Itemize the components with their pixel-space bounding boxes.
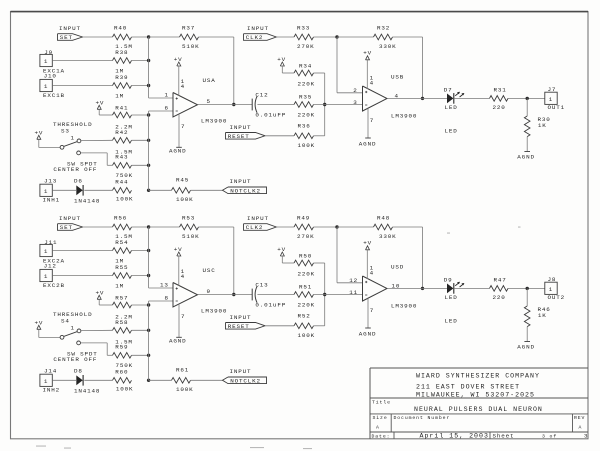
wire (149, 226, 180, 228)
svg-text:R55: R55 (115, 264, 128, 271)
resistor R51 (294, 284, 315, 309)
capacitor C13 (252, 282, 286, 309)
svg-text:7: 7 (370, 117, 374, 124)
resistor R57 (113, 295, 133, 321)
junction (147, 35, 150, 38)
wire (508, 287, 545, 289)
wire (52, 275, 112, 277)
junction (335, 225, 338, 228)
wire (81, 139, 113, 141)
svg-text:D6: D6 (74, 178, 83, 185)
svg-text:R32: R32 (377, 25, 390, 32)
wire (265, 135, 294, 137)
svg-text:R37: R37 (182, 25, 195, 32)
junction (147, 225, 150, 228)
wire (132, 226, 149, 228)
node SET input label 1 (59, 25, 81, 32)
wire (39, 139, 60, 147)
wire (99, 109, 112, 115)
wire pin 14 (179, 256, 185, 286)
wire (282, 256, 294, 263)
resistor R37 (180, 25, 200, 51)
svg-text:NOTCLK2: NOTCLK2 (230, 188, 261, 195)
svg-text:1: 1 (44, 248, 48, 255)
svg-text:1: 1 (44, 188, 48, 195)
svg-text:MILWAUKEE, WI 53207-2025: MILWAUKEE, WI 53207-2025 (416, 392, 535, 399)
svg-text:J13: J13 (44, 178, 57, 185)
svg-text:R31: R31 (494, 86, 507, 93)
resistor R45 (172, 176, 194, 203)
flag CLK2 (244, 34, 277, 42)
svg-text:510K: 510K (182, 43, 200, 50)
resistor R42 (113, 129, 133, 155)
resistor R31 (490, 86, 509, 111)
wire (337, 226, 374, 228)
resistor R56 (113, 215, 133, 241)
resistor R46 (524, 306, 550, 327)
svg-text:1M: 1M (115, 283, 124, 290)
svg-text:Sheet: Sheet (493, 433, 515, 440)
svg-text:INPUT: INPUT (230, 314, 252, 321)
svg-text:USD: USD (391, 263, 404, 270)
resistor R36 (294, 123, 315, 149)
LED D9 (444, 276, 465, 301)
svg-text:R45: R45 (176, 176, 189, 183)
node CLK2 input label (247, 25, 269, 32)
connector J11 (40, 239, 65, 265)
switch mode label (53, 350, 97, 363)
power +V (96, 99, 105, 109)
wire (454, 287, 490, 289)
wire (276, 36, 294, 38)
svg-text:D7: D7 (444, 86, 453, 93)
svg-text:Document Number: Document Number (394, 415, 451, 421)
LED label (445, 127, 458, 134)
op-amp USA (165, 77, 228, 124)
ground AGND (517, 152, 535, 161)
resistor R38 (113, 49, 132, 75)
wire (314, 226, 338, 228)
wire (81, 153, 113, 165)
junction (421, 287, 424, 290)
resistor R43 (113, 154, 134, 180)
junction (526, 287, 529, 290)
svg-text:C13: C13 (255, 282, 268, 289)
junction (232, 293, 235, 296)
svg-text:5: 5 (207, 98, 211, 105)
connector J13 (40, 178, 60, 204)
resistor R61 (172, 366, 194, 393)
svg-text:100K: 100K (298, 332, 316, 339)
svg-text:R43: R43 (115, 154, 128, 161)
svg-text:R41: R41 (115, 105, 128, 112)
power +V (35, 319, 44, 329)
speckle marks (36, 227, 521, 450)
connector J9 (40, 49, 65, 75)
junction (147, 139, 150, 142)
svg-text:+V: +V (277, 56, 286, 63)
svg-text:INPUT: INPUT (230, 124, 252, 131)
svg-text:LED: LED (445, 127, 458, 134)
svg-text:INPUT: INPUT (59, 215, 81, 222)
svg-text:100K: 100K (116, 386, 134, 393)
junction (323, 293, 326, 296)
wire (454, 97, 490, 99)
svg-text:220K: 220K (298, 111, 316, 118)
svg-text:R36: R36 (298, 123, 311, 130)
svg-text:R54: R54 (115, 239, 128, 246)
wire (314, 135, 325, 137)
junction (526, 97, 529, 100)
resistor R47 (490, 276, 509, 301)
junction (147, 113, 150, 116)
svg-text:211 EAST DOVER STREET: 211 EAST DOVER STREET (416, 384, 520, 391)
wire (132, 85, 149, 87)
ground AGND (359, 138, 377, 147)
resistor R33 (294, 25, 315, 51)
svg-text:INH1: INH1 (43, 197, 61, 204)
op-amp USB (353, 73, 417, 119)
svg-text:R61: R61 (176, 366, 189, 373)
switch S3 labels (53, 121, 92, 134)
wire (526, 288, 528, 306)
svg-text:8: 8 (165, 294, 169, 301)
junction (147, 274, 150, 277)
svg-text:+V: +V (174, 246, 183, 253)
svg-text:7: 7 (181, 313, 185, 320)
wire (526, 98, 528, 116)
wire (276, 226, 294, 228)
svg-text:USB: USB (391, 73, 404, 80)
node RESET input label (230, 124, 252, 131)
node CLK2 input label (247, 215, 269, 222)
svg-text:AGND: AGND (517, 343, 535, 350)
wire (314, 263, 325, 326)
svg-text:R33: R33 (297, 25, 310, 32)
svg-text:USC: USC (203, 267, 216, 274)
svg-text:S3: S3 (61, 127, 70, 134)
wire (99, 299, 112, 305)
flag RESET (226, 323, 266, 331)
junction (147, 303, 150, 306)
diode D6 (74, 178, 100, 205)
wire (199, 227, 234, 295)
power +V (174, 246, 183, 256)
resistor R32 (374, 25, 397, 51)
wire (132, 275, 149, 277)
svg-text:R52: R52 (298, 313, 311, 320)
svg-text:220K: 220K (298, 301, 316, 308)
resistor R30 (524, 116, 550, 137)
wire (387, 287, 447, 289)
wire (337, 36, 374, 38)
svg-text:LED: LED (445, 294, 458, 301)
resistor R34 (294, 63, 315, 88)
wire (314, 325, 325, 327)
wire (337, 227, 363, 283)
wire (39, 329, 60, 337)
svg-text:CENTER OFF: CENTER OFF (53, 356, 97, 363)
wire (149, 189, 172, 191)
wire (393, 227, 423, 288)
svg-text:1: 1 (549, 96, 553, 103)
svg-text:AGND: AGND (169, 148, 187, 155)
svg-text:7: 7 (181, 123, 185, 130)
flag SET2 (58, 224, 83, 232)
wire (314, 104, 363, 106)
wire pin 14 (179, 66, 185, 96)
svg-text:LM3900: LM3900 (391, 302, 417, 309)
svg-text:330K: 330K (379, 43, 397, 50)
svg-text:6: 6 (165, 104, 169, 111)
svg-text:D8: D8 (74, 368, 83, 375)
svg-text:EXC2B: EXC2B (43, 282, 65, 289)
svg-text:100K: 100K (176, 386, 194, 393)
svg-text:270K: 270K (297, 233, 315, 240)
power +V (277, 246, 286, 256)
svg-text:510K: 510K (182, 233, 200, 240)
wire (191, 189, 223, 191)
wire plus-input bus (149, 37, 173, 98)
svg-text:A: A (376, 424, 380, 430)
switch S4 labels (53, 311, 92, 324)
svg-text:R53: R53 (182, 215, 195, 222)
junction (147, 249, 150, 252)
node NOTCLK2 input label (230, 178, 252, 185)
svg-text:0.01uFP: 0.01uFP (255, 112, 286, 119)
svg-text:3 of: 3 of (542, 434, 557, 440)
svg-text:4: 4 (181, 273, 185, 280)
svg-text:R57: R57 (115, 295, 128, 302)
resistor R55 (113, 264, 132, 290)
svg-text:+V: +V (96, 289, 105, 296)
resistor R39 (113, 74, 132, 100)
svg-text:A: A (579, 424, 583, 430)
resistor R52 (294, 313, 315, 339)
svg-text:1N4148: 1N4148 (74, 198, 100, 205)
junction (335, 35, 338, 38)
svg-text:13: 13 (160, 281, 169, 288)
wire minus-input bus (149, 111, 173, 190)
svg-text:220K: 220K (298, 271, 316, 278)
svg-text:INH2: INH2 (43, 387, 61, 394)
svg-text:J9: J9 (44, 49, 53, 56)
svg-text:LM3900: LM3900 (201, 117, 227, 124)
junction (147, 59, 150, 62)
title block size/doc/rev (373, 415, 586, 430)
resistor R44 (113, 179, 134, 203)
svg-text:J11: J11 (44, 239, 57, 246)
svg-text:R39: R39 (115, 74, 128, 81)
capacitor C12 (252, 92, 286, 119)
svg-text:4: 4 (370, 79, 374, 86)
svg-text:LM3900: LM3900 (391, 112, 417, 119)
wire (199, 37, 234, 105)
wire (132, 354, 149, 356)
svg-text:R35: R35 (299, 94, 312, 101)
svg-text:LED: LED (445, 317, 458, 324)
svg-text:J12: J12 (44, 263, 57, 270)
svg-text:Title: Title (372, 399, 391, 405)
flag NOTCLK2 (223, 377, 267, 385)
svg-text:R42: R42 (115, 129, 128, 136)
svg-text:AGND: AGND (359, 140, 377, 147)
node RESET input label (230, 314, 252, 321)
flag RESET (226, 133, 266, 141)
svg-text:R58: R58 (115, 319, 128, 326)
wire (149, 379, 172, 381)
svg-text:RESET: RESET (228, 133, 250, 140)
wire (314, 73, 325, 136)
junction (147, 329, 150, 332)
connector J10 (40, 73, 65, 99)
svg-text:D9: D9 (444, 276, 453, 283)
svg-text:1M: 1M (115, 93, 124, 100)
wire minus-input bus (149, 301, 173, 380)
svg-text:4: 4 (181, 83, 185, 90)
svg-text:330K: 330K (379, 233, 397, 240)
wire (132, 139, 149, 141)
wire (387, 97, 447, 99)
wire (52, 379, 76, 381)
svg-text:J14: J14 (44, 368, 57, 375)
svg-text:R60: R60 (115, 369, 128, 376)
svg-text:R40: R40 (114, 25, 127, 32)
wire (84, 379, 112, 381)
wire (282, 66, 294, 73)
svg-text:220: 220 (493, 104, 506, 111)
svg-text:S4: S4 (61, 317, 70, 324)
node NOTCLK2 input label (230, 368, 252, 375)
svg-text:CLK2: CLK2 (246, 34, 264, 41)
resistor R35 (294, 94, 315, 119)
svg-text:LM3900: LM3900 (201, 307, 227, 314)
svg-text:CENTER OFF: CENTER OFF (53, 166, 97, 173)
ground AGND (169, 147, 187, 154)
svg-text:1K: 1K (538, 312, 547, 319)
svg-text:100K: 100K (116, 196, 134, 203)
svg-text:100K: 100K (176, 196, 194, 203)
wire (52, 60, 112, 62)
resistor R48 (374, 215, 397, 241)
svg-text:1: 1 (44, 378, 48, 385)
ground AGND (517, 342, 535, 351)
svg-text:REV: REV (574, 415, 585, 421)
svg-text:J10: J10 (44, 73, 57, 80)
svg-text:220: 220 (493, 294, 506, 301)
svg-text:CLK2: CLK2 (246, 224, 264, 231)
wire (508, 97, 545, 99)
flag CLK2 (244, 224, 277, 232)
op-amp USD (349, 263, 417, 309)
power +V (363, 240, 372, 250)
wire (314, 36, 338, 38)
svg-text:1: 1 (44, 273, 48, 280)
svg-text:EXC1B: EXC1B (43, 92, 65, 99)
wire (52, 250, 112, 252)
svg-text:+V: +V (174, 56, 183, 63)
svg-text:R50: R50 (299, 253, 312, 260)
flag SET1 (58, 34, 83, 42)
title block company (416, 373, 540, 399)
wire (257, 294, 294, 296)
junction (323, 103, 326, 106)
svg-text:INPUT: INPUT (230, 368, 252, 375)
wire (132, 250, 149, 252)
svg-text:1: 1 (549, 286, 553, 293)
wire (526, 327, 528, 342)
svg-text:3: 3 (584, 433, 588, 440)
svg-text:Size: Size (373, 415, 388, 421)
wire (84, 36, 113, 38)
ground AGND (169, 337, 187, 344)
flag NOTCLK2 (223, 187, 267, 195)
wire (198, 104, 253, 106)
wire (337, 37, 363, 93)
resistor R50 (294, 253, 315, 278)
resistor R60 (113, 369, 134, 393)
svg-text:220K: 220K (298, 81, 316, 88)
svg-text:7: 7 (370, 307, 374, 314)
connector J14 (40, 368, 60, 394)
svg-text:100K: 100K (298, 142, 316, 149)
wire pin 7 (179, 114, 185, 147)
svg-text:3: 3 (353, 99, 357, 106)
wire (526, 137, 528, 152)
junction (147, 84, 150, 87)
svg-text:270K: 270K (297, 43, 315, 50)
svg-text:1: 1 (165, 91, 169, 98)
svg-text:R59: R59 (115, 344, 128, 351)
connector J8 (545, 276, 565, 301)
title block date/sheet (372, 433, 589, 440)
switch S4 (60, 325, 81, 345)
svg-text:OUT2: OUT2 (548, 294, 566, 301)
wire (132, 36, 149, 38)
svg-text:NEURAL PULSERS DUAL NEURON: NEURAL PULSERS DUAL NEURON (414, 406, 543, 413)
svg-text:1K: 1K (538, 122, 547, 129)
wire (257, 104, 294, 106)
svg-text:+V: +V (277, 246, 286, 253)
wire (132, 60, 149, 62)
wire pin 7 (368, 108, 374, 138)
svg-text:0.01uFP: 0.01uFP (255, 302, 286, 309)
wire (191, 379, 223, 381)
svg-text:OUT1: OUT1 (548, 104, 566, 111)
wire pin 7 (368, 298, 374, 328)
svg-text:4: 4 (370, 269, 374, 276)
svg-text:R44: R44 (115, 179, 128, 186)
svg-text:11: 11 (349, 289, 358, 296)
svg-text:9: 9 (207, 288, 211, 295)
svg-text:12: 12 (349, 277, 358, 284)
svg-text:Date:: Date: (372, 434, 391, 440)
wire pin 14 (367, 250, 374, 279)
connector J12 (40, 263, 65, 289)
wire (81, 343, 113, 355)
svg-text:LED: LED (445, 104, 458, 111)
svg-text:R47: R47 (494, 276, 507, 283)
wire (149, 36, 180, 38)
wire (52, 189, 76, 191)
wire (52, 85, 112, 87)
wire (132, 164, 149, 166)
power +V (96, 289, 105, 299)
wire plus-input bus (149, 227, 173, 288)
wire (265, 325, 294, 327)
svg-text:AGND: AGND (517, 153, 535, 160)
switch mode label (53, 160, 97, 173)
